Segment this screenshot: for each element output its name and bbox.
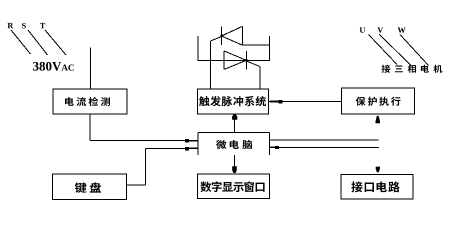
wire: S phase slant lead xyxy=(28,30,48,55)
wire: U phase slant lead to motor xyxy=(369,35,398,65)
node: left terminal stub of SCR pair xyxy=(197,36,199,60)
wire: V phase slant lead to motor xyxy=(380,35,412,67)
label: phase S xyxy=(22,23,26,29)
label: connect three-phase motor 接三相电机 xyxy=(382,65,443,73)
wire: keyboard output up-right into microcomputer xyxy=(127,148,199,184)
arrowhead up into protection box xyxy=(376,116,381,123)
wire: microcomputer output right (to protection) xyxy=(269,139,378,141)
block: current detection 电流检测 xyxy=(53,89,127,114)
wire: SCR1 anode connection to right stub xyxy=(243,44,270,46)
label: phase U xyxy=(360,27,366,32)
block: protection actuator 保护执行 xyxy=(342,88,415,114)
wire: W phase slant lead to motor xyxy=(400,35,429,66)
label: 键盘 xyxy=(75,182,101,193)
label: 微电脑 xyxy=(216,140,252,149)
wire: SCR1 gate lead to trigger box xyxy=(211,37,222,90)
block: keyboard 键盘 xyxy=(53,174,127,199)
node: SCR2 apex junction dot xyxy=(245,59,248,62)
block: trigger pulse system 触发脉冲系统 xyxy=(198,89,269,114)
wire: SCR common rail xyxy=(198,59,271,61)
block: microcomputer 微电脑 (open bottom) xyxy=(198,132,269,155)
label: phase R xyxy=(8,23,14,28)
label: 380VAC supply xyxy=(33,62,74,71)
arrowhead into microcomputer (upper left) xyxy=(185,139,189,142)
label: 保护执行 xyxy=(356,97,401,106)
block: interface circuit 接口电路 xyxy=(341,175,413,200)
wire: supply feed down to current detection xyxy=(90,48,92,90)
arrowhead into trigger box xyxy=(270,101,279,103)
arrowhead into microcomputer (right side) xyxy=(269,147,275,149)
thyristor SCR2 (lower, cathode bar right) xyxy=(224,51,246,69)
wire: protection to trigger box with left arrow xyxy=(269,101,342,103)
thyristor SCR1 (upper, cathode bar left) xyxy=(222,26,243,45)
wire: T phase slant lead xyxy=(45,30,66,55)
arrowhead up into trigger box xyxy=(232,115,237,120)
node: right terminal stub of SCR pair xyxy=(269,36,271,60)
wire: SCR2 gate lead to trigger box xyxy=(246,61,260,89)
block: digital display window 数字显示窗口 xyxy=(198,174,270,198)
wire: microcomputer to trigger box vertical with up arrow xyxy=(234,115,236,133)
wire: current detection output down-right into microcomputer xyxy=(90,114,198,141)
label: 数字显示窗口 xyxy=(200,181,264,192)
label: phase T xyxy=(40,23,45,28)
label: 触发脉冲系统 xyxy=(199,96,266,106)
node: SCR1 apex junction dot xyxy=(220,35,223,38)
arrowhead down into display box xyxy=(232,166,237,173)
label: phase W xyxy=(398,27,406,32)
arrowhead into microcomputer (lower left) xyxy=(185,147,189,150)
label: phase V xyxy=(377,27,383,32)
wire: R phase slant lead xyxy=(11,30,31,54)
wire: input from interface into microcomputer right side xyxy=(269,146,379,148)
arrowhead down toward interface box xyxy=(376,167,380,173)
label: 接口电路 xyxy=(351,181,399,192)
label: 电流检测 xyxy=(65,97,110,106)
wire: microcomputer down arrow to display xyxy=(234,155,236,167)
